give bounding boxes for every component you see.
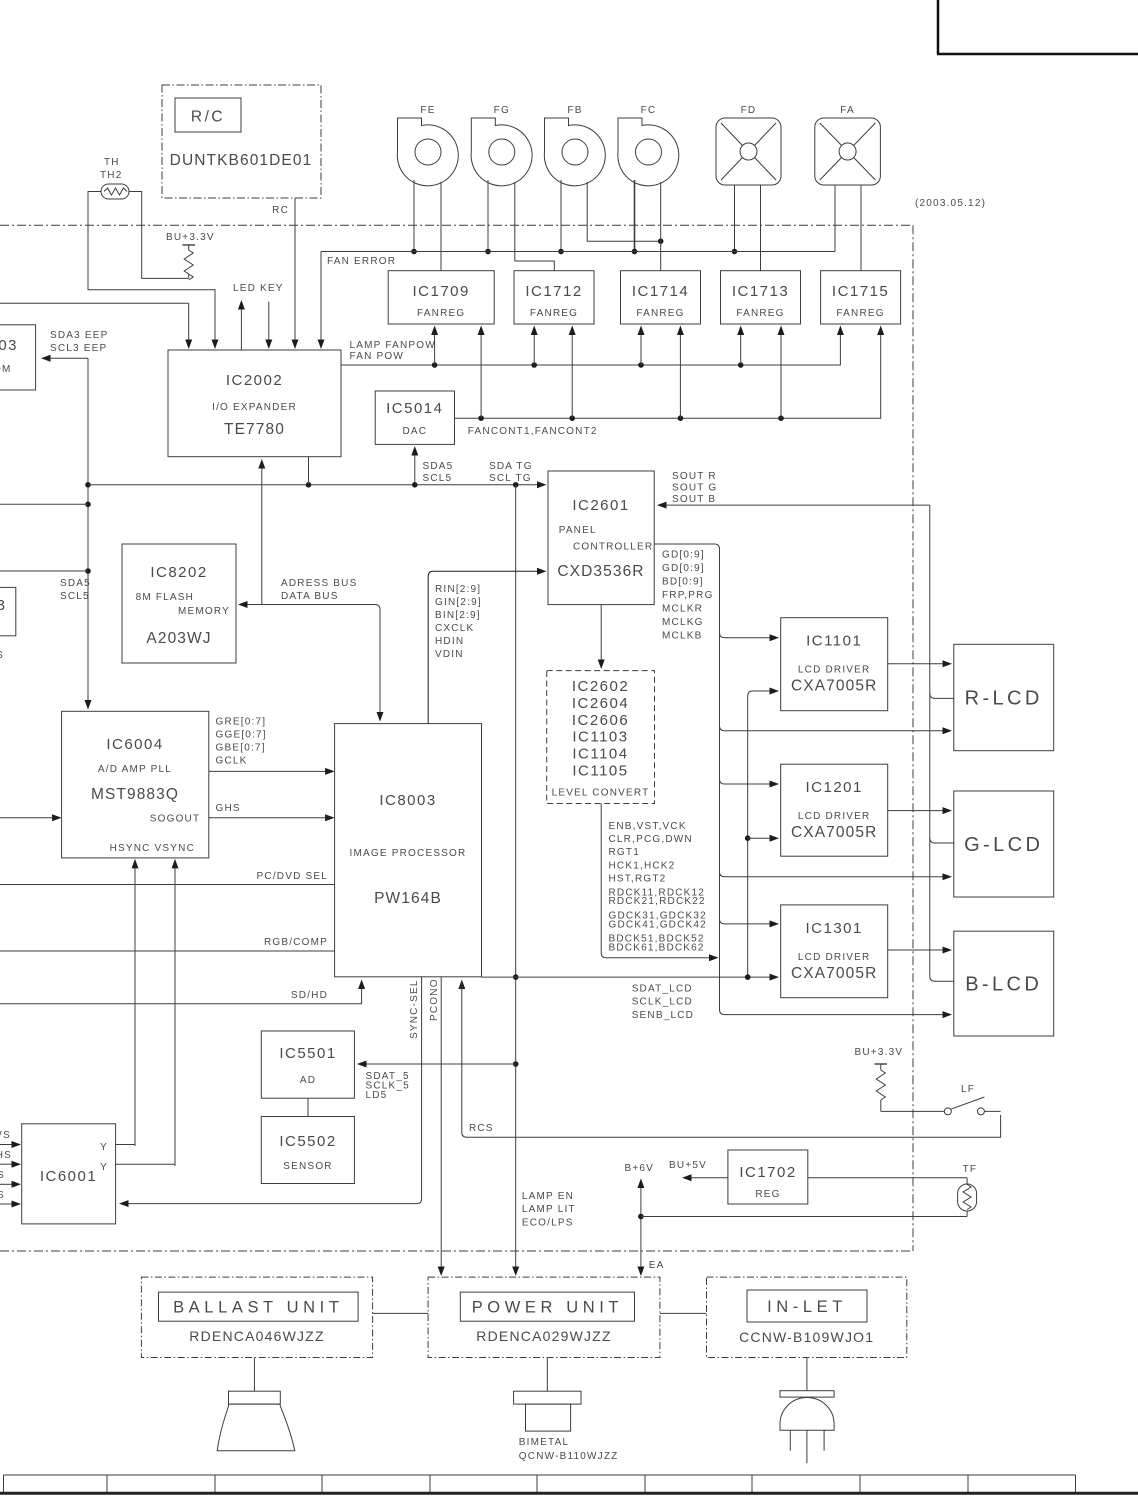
svg-text:IC1105: IC1105 — [572, 763, 628, 780]
svg-text:BU+5V: BU+5V — [669, 1160, 707, 1171]
svg-text:IC1101: IC1101 — [806, 633, 862, 650]
svg-text:IC6004: IC6004 — [106, 736, 163, 753]
svg-text:CXCLK: CXCLK — [435, 623, 474, 634]
svg-text:QCNW-B110WJZZ: QCNW-B110WJZZ — [519, 1451, 619, 1462]
svg-text:BALLAST UNIT: BALLAST UNIT — [173, 1299, 343, 1317]
svg-text:B+6V: B+6V — [625, 1163, 655, 1174]
svg-text:DAC: DAC — [402, 426, 427, 437]
svg-text:TH: TH — [104, 157, 120, 168]
svg-text:CONTROLLER: CONTROLLER — [573, 542, 653, 553]
svg-text:IC2601: IC2601 — [572, 497, 629, 514]
svg-text:LED KEY: LED KEY — [233, 283, 284, 294]
svg-text:IC2606: IC2606 — [572, 712, 629, 729]
svg-text:SCL5: SCL5 — [423, 473, 453, 484]
svg-text:IC6001: IC6001 — [40, 1168, 97, 1185]
svg-text:SDAT_LCD: SDAT_LCD — [632, 984, 693, 995]
svg-text:RDENCA046WJZZ: RDENCA046WJZZ — [189, 1328, 324, 1344]
svg-text:FE: FE — [420, 105, 435, 116]
svg-text:(2003.05.12): (2003.05.12) — [915, 198, 986, 209]
svg-text:VDIN: VDIN — [435, 649, 464, 660]
svg-text:SCL3 EEP: SCL3 EEP — [50, 343, 107, 354]
svg-text:RIN[2:9]: RIN[2:9] — [435, 584, 481, 595]
svg-text:TE7780: TE7780 — [224, 421, 285, 438]
svg-text:IC1201: IC1201 — [806, 779, 863, 796]
svg-text:MEMORY: MEMORY — [178, 606, 230, 617]
svg-text:MCLKR: MCLKR — [662, 604, 703, 615]
svg-text:GD[0:9]: GD[0:9] — [662, 550, 705, 561]
svg-text:GD[0:9]: GD[0:9] — [662, 563, 705, 574]
svg-text:GHS: GHS — [216, 803, 241, 814]
svg-text:03: 03 — [0, 337, 18, 354]
svg-text:RGB/COMP: RGB/COMP — [264, 937, 328, 948]
svg-text:IC1103: IC1103 — [572, 729, 628, 746]
svg-text:RCS: RCS — [469, 1123, 494, 1134]
svg-text:IC5014: IC5014 — [386, 400, 443, 417]
svg-text:PANEL: PANEL — [559, 525, 597, 536]
svg-text:CXA7005R: CXA7005R — [791, 678, 877, 695]
svg-text:SOUT B: SOUT B — [672, 494, 716, 505]
svg-text:SCL TG: SCL TG — [489, 473, 532, 484]
svg-text:MST9883Q: MST9883Q — [91, 786, 179, 803]
svg-text:RC: RC — [272, 205, 289, 216]
svg-text:FANREG: FANREG — [636, 308, 684, 319]
svg-text:SDA TG: SDA TG — [489, 461, 533, 472]
svg-text:IC2002: IC2002 — [226, 372, 283, 389]
svg-text:LCD DRIVER: LCD DRIVER — [798, 665, 871, 676]
svg-text:EA: EA — [649, 1260, 665, 1271]
svg-text:CCNW-B109WJO1: CCNW-B109WJO1 — [739, 1329, 874, 1345]
svg-text:AD: AD — [300, 1075, 316, 1086]
svg-text:OM: OM — [0, 364, 12, 375]
svg-text:TF: TF — [963, 1164, 978, 1175]
svg-text:I/O EXPANDER: I/O EXPANDER — [212, 402, 297, 413]
svg-text:IC2602: IC2602 — [572, 678, 629, 695]
svg-text:PCONO: PCONO — [429, 978, 440, 1021]
svg-text:R/C: R/C — [191, 109, 225, 126]
svg-text:IC1709: IC1709 — [413, 283, 470, 300]
svg-text:IC1104: IC1104 — [572, 746, 628, 763]
svg-text:GRE[0:7]: GRE[0:7] — [216, 717, 267, 728]
svg-text:HDIN: HDIN — [435, 636, 464, 647]
svg-text:IC1712: IC1712 — [525, 283, 582, 300]
svg-text:BU+3.3V: BU+3.3V — [166, 232, 215, 243]
svg-text:SDA3 EEP: SDA3 EEP — [50, 330, 109, 341]
svg-text:SD/HD: SD/HD — [291, 990, 328, 1001]
svg-text:Y: Y — [100, 1162, 108, 1173]
svg-text:SCL5: SCL5 — [60, 591, 90, 602]
svg-text:LCD DRIVER: LCD DRIVER — [798, 952, 871, 963]
svg-text:SENSOR: SENSOR — [283, 1161, 332, 1172]
svg-text:POWER UNIT: POWER UNIT — [472, 1299, 623, 1317]
svg-text:FC: FC — [641, 105, 657, 116]
svg-text:IC8202: IC8202 — [150, 564, 207, 581]
svg-text:IMAGE PROCESSOR: IMAGE PROCESSOR — [350, 848, 467, 859]
svg-text:CXA7005R: CXA7005R — [791, 824, 877, 841]
svg-text:BD[0:9]: BD[0:9] — [662, 577, 704, 588]
svg-text:LAMP LIT: LAMP LIT — [522, 1204, 576, 1215]
svg-text:HST,RGT2: HST,RGT2 — [609, 873, 667, 884]
svg-text:GGE[0:7]: GGE[0:7] — [216, 730, 267, 741]
svg-text:SENB_LCD: SENB_LCD — [632, 1010, 694, 1021]
svg-text:CLR,PCG,DWN: CLR,PCG,DWN — [609, 834, 693, 845]
svg-text:IC5502: IC5502 — [279, 1133, 336, 1150]
svg-text:A/D AMP PLL: A/D AMP PLL — [98, 764, 172, 775]
svg-text:DATA BUS: DATA BUS — [281, 591, 339, 602]
svg-text:GBE[0:7]: GBE[0:7] — [216, 743, 266, 754]
svg-text:CXD3536R: CXD3536R — [557, 563, 644, 580]
svg-text:BU+3.3V: BU+3.3V — [855, 1047, 904, 1058]
svg-text:BIN[2:9]: BIN[2:9] — [435, 610, 481, 621]
svg-text:G-LCD: G-LCD — [964, 834, 1043, 856]
svg-text:GDCK41,GDCK42: GDCK41,GDCK42 — [609, 919, 707, 930]
svg-text:IC1301: IC1301 — [806, 920, 863, 937]
svg-text:IC1713: IC1713 — [732, 283, 789, 300]
svg-text:RDCK21,RDCK22: RDCK21,RDCK22 — [609, 896, 706, 907]
svg-text:RDENCA029WJZZ: RDENCA029WJZZ — [476, 1328, 611, 1344]
svg-text:GCLK: GCLK — [216, 756, 248, 767]
svg-text:FA: FA — [840, 105, 855, 116]
svg-text:FD: FD — [741, 105, 757, 116]
svg-text:FRP,PRG: FRP,PRG — [662, 590, 714, 601]
svg-text:FANREG: FANREG — [736, 308, 784, 319]
svg-text:DUNTKB601DE01: DUNTKB601DE01 — [170, 152, 313, 169]
svg-text:SOUT R: SOUT R — [672, 471, 717, 482]
svg-text:SCLK_LCD: SCLK_LCD — [632, 996, 693, 1007]
svg-text:SYNC-SEL: SYNC-SEL — [409, 979, 420, 1039]
svg-text:TH2: TH2 — [100, 170, 123, 181]
svg-text:VS: VS — [0, 1130, 11, 1141]
svg-text:ECO/LPS: ECO/LPS — [522, 1218, 574, 1229]
svg-text:FANREG: FANREG — [836, 308, 884, 319]
svg-text:FAN ERROR: FAN ERROR — [327, 256, 396, 267]
svg-text:GIN[2:9]: GIN[2:9] — [435, 597, 482, 608]
svg-text:LF: LF — [961, 1084, 975, 1095]
svg-text:S: S — [0, 1170, 5, 1181]
svg-text:BIMETAL: BIMETAL — [519, 1437, 569, 1448]
svg-text:LAMP EN: LAMP EN — [522, 1191, 574, 1202]
svg-text:BDCK61,BDCK62: BDCK61,BDCK62 — [609, 943, 705, 954]
svg-text:IC2604: IC2604 — [572, 695, 629, 712]
svg-text:CXA7005R: CXA7005R — [791, 965, 877, 982]
svg-text:SOGOUT: SOGOUT — [150, 814, 201, 825]
svg-text:SOUT G: SOUT G — [672, 483, 717, 494]
svg-text:B-LCD: B-LCD — [965, 974, 1042, 996]
svg-text:MCLKB: MCLKB — [662, 631, 702, 642]
svg-text:MCLKG: MCLKG — [662, 617, 704, 628]
svg-text:FANREG: FANREG — [530, 308, 578, 319]
svg-text:Y: Y — [100, 1142, 108, 1153]
svg-text:A203WJ: A203WJ — [146, 630, 211, 647]
svg-text:SDA5: SDA5 — [60, 578, 91, 589]
svg-text:REG: REG — [755, 1189, 780, 1200]
svg-text:FANREG: FANREG — [417, 308, 465, 319]
svg-text:SDA5: SDA5 — [423, 461, 454, 472]
svg-text:LCD DRIVER: LCD DRIVER — [798, 811, 871, 822]
svg-text:PW164B: PW164B — [374, 890, 442, 907]
svg-text:FB: FB — [567, 105, 582, 116]
svg-text:HCK1,HCK2: HCK1,HCK2 — [609, 860, 676, 871]
svg-text:FG: FG — [494, 105, 510, 116]
svg-text:FANCONT1,FANCONT2: FANCONT1,FANCONT2 — [468, 426, 598, 437]
svg-text:PC/DVD SEL: PC/DVD SEL — [257, 871, 328, 882]
svg-text:FAN POW: FAN POW — [350, 351, 405, 362]
svg-text:HS: HS — [0, 1150, 12, 1161]
svg-text:HSYNC VSYNC: HSYNC VSYNC — [110, 843, 195, 854]
svg-text:R-LCD: R-LCD — [965, 688, 1043, 710]
svg-text:IC1714: IC1714 — [632, 283, 689, 300]
svg-text:IC5501: IC5501 — [279, 1045, 336, 1062]
svg-text:S: S — [0, 650, 4, 661]
svg-text:IC1702: IC1702 — [739, 1164, 796, 1181]
svg-text:IN-LET: IN-LET — [767, 1298, 847, 1316]
svg-text:IC1715: IC1715 — [832, 283, 889, 300]
svg-text:ADRESS BUS: ADRESS BUS — [281, 578, 357, 589]
svg-text:S: S — [0, 1190, 5, 1201]
svg-text:LEVEL CONVERT: LEVEL CONVERT — [552, 788, 650, 799]
svg-text:IC8003: IC8003 — [379, 792, 436, 809]
svg-text:LAMP FANPOW: LAMP FANPOW — [350, 340, 436, 351]
svg-text:3: 3 — [0, 597, 7, 614]
svg-text:LD5: LD5 — [366, 1090, 388, 1101]
svg-text:ENB,VST,VCK: ENB,VST,VCK — [609, 821, 687, 832]
svg-text:RGT1: RGT1 — [609, 847, 640, 858]
svg-text:8M FLASH: 8M FLASH — [136, 592, 195, 603]
